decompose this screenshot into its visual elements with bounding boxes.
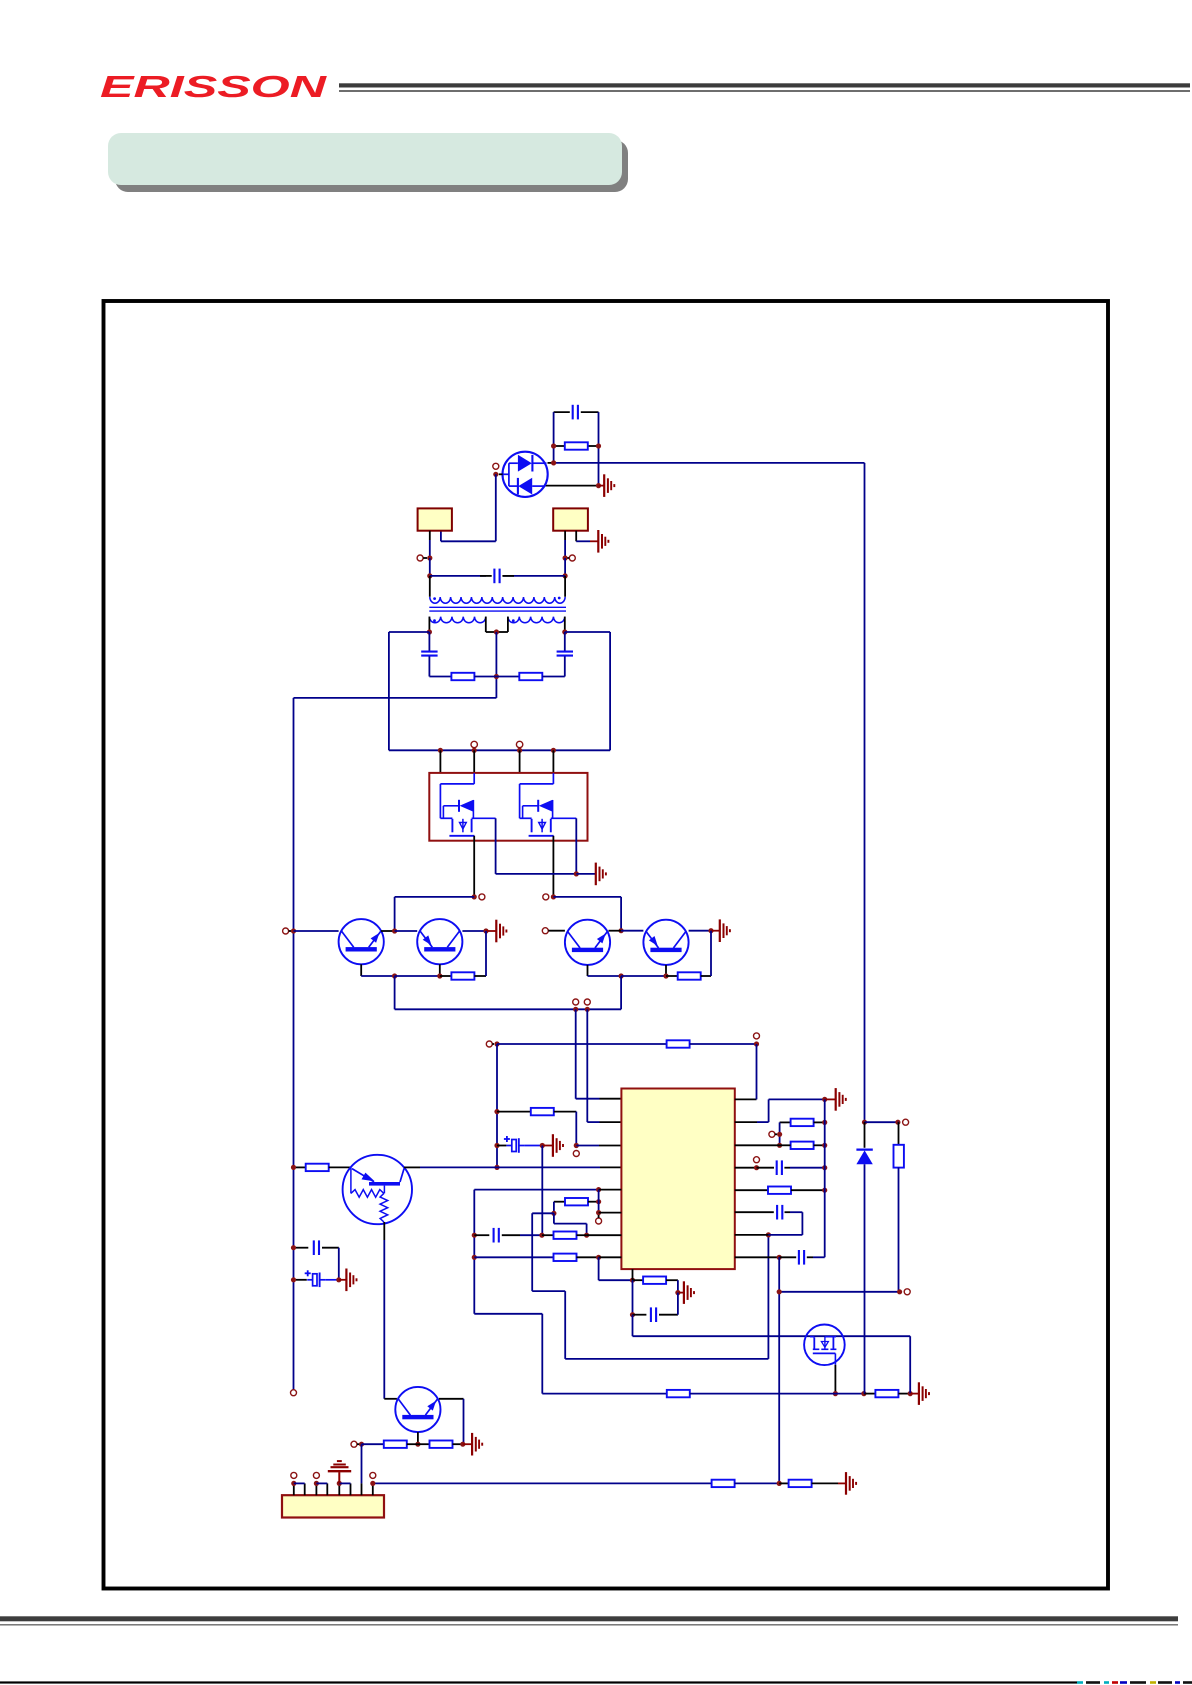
svg-text:ERISSON: ERISSON — [100, 69, 327, 104]
